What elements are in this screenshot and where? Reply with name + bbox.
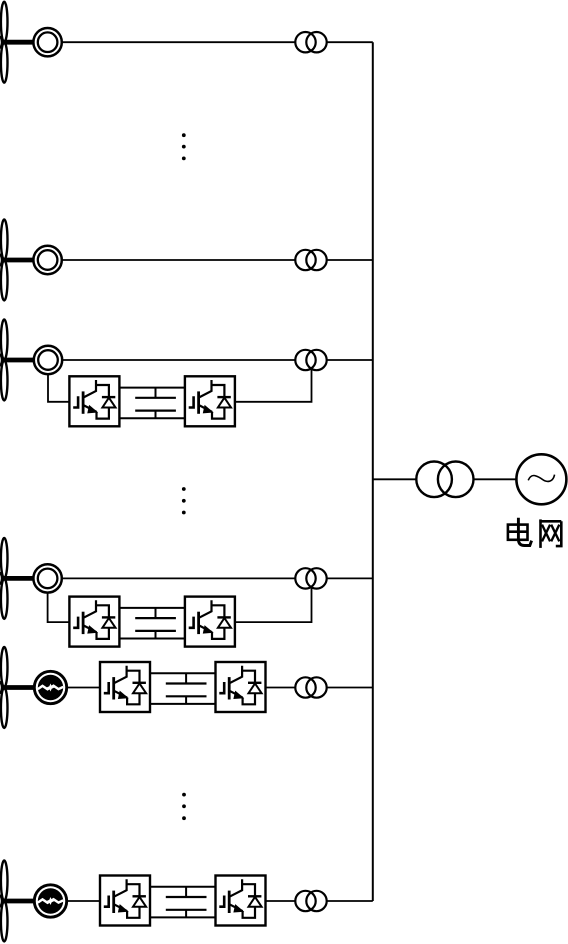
wind turbine WT2 blades	[0, 220, 8, 301]
wire G1 to T1	[62, 41, 295, 43]
main transformer T0	[416, 462, 473, 498]
wind turbine WT5 blades	[0, 647, 8, 728]
WT6 shaft	[3, 899, 35, 904]
wire G3 stator to T3	[63, 359, 296, 361]
label 电网 (grid) : 电	[508, 518, 532, 546]
wind turbine WT4 blades	[0, 538, 8, 619]
converter WT3 (rectifier + DC link + inverter)	[69, 376, 235, 426]
generator G3	[34, 346, 62, 374]
converter WT4 (rectifier + DC link + inverter)	[69, 597, 235, 647]
generator G2	[33, 246, 61, 274]
wire T1 to bus	[327, 41, 373, 43]
wind turbine WT1 blades	[0, 2, 8, 83]
generator G4	[33, 564, 61, 592]
wire T3 to bus	[327, 359, 373, 361]
wire G3 rotor drop to converter	[48, 375, 69, 402]
wire converter WT5 output to T5	[266, 687, 296, 689]
ellipsis dots group 3	[182, 793, 186, 820]
wire converter WT4 output to T4	[235, 587, 312, 622]
converter WT5 (rectifier + DC link + inverter)	[100, 662, 266, 712]
wire G4 rotor drop to converter	[48, 593, 70, 622]
WT1 shaft	[3, 40, 33, 45]
converter WT6 (rectifier + DC link + inverter)	[100, 876, 266, 926]
grid source symbol	[516, 454, 566, 504]
wire T5 to bus	[327, 687, 373, 689]
wind turbine WT3 blades	[0, 320, 8, 401]
transformer T5	[295, 677, 326, 697]
wire T0 to grid	[474, 478, 517, 480]
transformer T6	[295, 891, 326, 911]
wire G2 to T2	[62, 259, 295, 261]
wire G5 to converter	[66, 687, 100, 689]
collector bus	[372, 42, 374, 901]
generator G1	[33, 28, 61, 56]
ellipsis dots group 2	[182, 487, 186, 514]
WT5 shaft	[3, 685, 35, 690]
wire converter WT3 output to T3	[235, 368, 312, 402]
transformer T3	[295, 350, 326, 370]
wire T2 to bus	[327, 259, 373, 261]
wire converter WT6 output to T6	[266, 900, 296, 902]
transformer T2	[295, 250, 326, 270]
wire bus to main transformer	[373, 478, 417, 480]
ellipsis dots group 1	[182, 133, 186, 160]
WT2 shaft	[3, 258, 33, 263]
label 电网 (grid) : 网	[539, 519, 561, 548]
wire T6 to bus	[327, 900, 373, 902]
wire T4 to bus	[327, 577, 373, 579]
wire G6 to converter	[66, 900, 100, 902]
generator G6 (PM synchronous)	[34, 885, 66, 917]
generator G5 (PM synchronous)	[34, 671, 66, 703]
WT4 shaft	[3, 576, 33, 581]
transformer T1	[295, 32, 326, 52]
transformer T4	[295, 568, 326, 588]
WT3 shaft	[3, 358, 33, 363]
wind turbine WT6 blades	[0, 861, 8, 942]
wire G4 stator to T4	[62, 577, 295, 579]
